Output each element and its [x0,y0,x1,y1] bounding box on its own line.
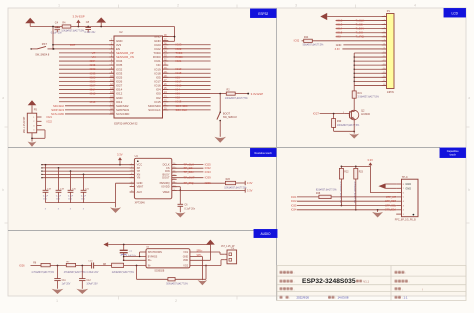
svg-text:TP-C: TP-C [402,175,408,179]
section label Capacitive touch [440,148,466,158]
resistor R23 [355,166,357,168]
svg-text:4: 4 [414,4,416,8]
svg-text:Q2: Q2 [361,109,365,113]
ctp signal wires [297,196,319,198]
feedback to VO2 [205,266,207,280]
svg-text:IO14: IO14 [90,88,96,92]
connector P5 power arrow [28,100,37,105]
svg-text:50K&#937;&#177;5%: 50K&#937;&#177;5% [166,284,188,286]
svg-text:12: 12 [173,178,175,180]
resistor R28 [319,195,331,198]
TP-C pin1 mark [413,214,415,216]
svg-text:3.9&#937;&#177;5%: 3.9&#937;&#177;5% [358,96,379,98]
svg-text:CTP_INT: CTP_INT [386,196,397,199]
svg-text:C4: C4 [55,21,59,25]
svg-text:C12: C12 [86,280,91,282]
wire top rail to U2 GND pins [174,27,176,42]
resistor R7 [66,263,75,266]
svg-text:VO2: VO2 [183,264,188,267]
svg-text:0.1uF: 0.1uF [43,196,49,198]
svg-text:4: 4 [33,130,34,132]
svg-text:touch: touch [450,153,457,157]
ground below C11 [52,289,64,294]
svg-text:IO12: IO12 [90,92,96,96]
svg-text:SDO-SD0: SDO-SD0 [176,104,188,108]
svg-text:IO21: IO21 [47,116,53,119]
resistor R30 [333,114,335,119]
svg-text:VO1: VO1 [183,251,188,254]
wires U4 left rows [42,164,134,166]
svg-text:SCS-CMD: SCS-CMD [51,112,64,116]
svg-text::: : [289,296,290,300]
wire U4 GND row to bus [116,182,135,184]
svg-text:BYPASS: BYPASS [148,255,158,258]
svg-text:IO26: IO26 [19,263,25,267]
ground below BOOT [214,137,226,143]
svg-text:P1: P1 [387,9,391,13]
power arrow 5V audio [206,240,215,245]
svg-text:VN: VN [92,55,96,59]
wire 3.3V to TP-C pin3 [370,192,396,194]
svg-text:IO2: IO2 [336,35,341,39]
svg-text:CTP_SDA: CTP_SDA [385,209,397,212]
U4 right stubs and numbers [172,164,177,166]
wire U4 IOVDD down [172,186,181,188]
title block outline [277,266,466,301]
svg-text:IO27: IO27 [90,83,96,87]
svg-text:1uF 20V: 1uF 20V [62,283,71,285]
wires P1 rows 10-18 to bus [354,52,386,54]
svg-text:IO32: IO32 [90,67,96,71]
svg-text:IO5: IO5 [176,75,181,79]
svg-text:T_IRQ: T_IRQ [356,35,365,39]
wire U4 DOUT [172,177,204,179]
wire U5 VO1 to P4 pin1 [190,251,220,253]
svg-text:SW_SMD4.8: SW_SMD4.8 [223,116,237,119]
svg-text:3.3V-ESP: 3.3V-ESP [73,15,85,19]
resistor R6 [41,263,50,266]
chip U4 XPT2046 body [134,158,171,199]
svg-text:XPT2046: XPT2046 [135,201,146,204]
svg-text:7: 7 [131,185,132,187]
svg-text:FPC_6P_0.5_P0_B: FPC_6P_0.5_P0_B [395,219,416,222]
switch SW7 RST [30,48,32,50]
svg-text:CTP_SCL: CTP_SCL [385,204,397,207]
backlight bus vertical [353,53,355,91]
ground below bus [115,203,117,208]
svg-text:RST: RST [70,43,76,47]
section divider vertical [276,8,278,301]
wire BOOT to ground [219,121,221,137]
top power rail wire [30,26,174,28]
resistor R31 [352,91,356,98]
power arrow VCC main [100,26,102,28]
svg-text:IO33: IO33 [205,170,212,174]
svg-text:b: b [2,188,4,192]
module U2 ESP32-WROOM-32 body [114,36,163,118]
svg-text:IO21: IO21 [291,195,297,199]
U2 right pin stubs and numbers [163,36,169,38]
svg-text:IO33: IO33 [90,71,96,75]
svg-text:VP: VP [92,51,96,55]
svg-text:YN: YN [137,176,141,180]
capacitor C10 series [91,263,93,269]
svg-text::: : [294,287,295,291]
svg-text:C8: C8 [86,20,90,24]
connector P1 pin stubs and numbers [382,16,387,18]
svg-text:R28: R28 [316,193,321,195]
title row3 page label [395,287,398,290]
svg-text:2: 2 [403,210,404,212]
svg-text:13: 13 [173,174,175,176]
svg-text:IO22: IO22 [47,121,53,124]
wire EN pullup vertical [52,27,54,49]
touch filter capacitors C18 C19 C20 C21 [45,164,47,166]
wire U5 shutdown stub [140,251,146,253]
wire C10 to R8 [94,265,112,267]
svg-text:IO25: IO25 [90,75,96,79]
frame column ticks top [118,5,120,9]
title row4 date label [280,296,283,299]
svg-text:IO18: IO18 [176,71,182,75]
svg-text:10K&#937;&#177;5%: 10K&#937;&#177;5% [224,187,246,189]
svg-text:14PIN: 14PIN [387,90,394,94]
wire P5 bottom to ground [31,133,33,142]
section divider horizontal audio [8,230,254,232]
svg-text:82&#937;&#177;5%: 82&#937;&#177;5% [316,190,337,192]
svg-text:0.36uF 20V: 0.36uF 20V [87,272,99,274]
U4 pin1 mark [137,160,139,162]
svg-text:SPK+: SPK+ [197,250,204,252]
amplifier U5 SC8002B body [146,249,190,268]
svg-text:GND: GND [405,186,411,190]
svg-text:Capacitive: Capacitive [447,149,459,153]
svg-text:ESP32-WROOM-32: ESP32-WROOM-32 [114,121,138,125]
ground below U5 right [198,280,208,285]
svg-text:R30: R30 [337,121,342,123]
capacitor ground bus [46,202,116,204]
svg-text:10K&#937;&#177;5%: 10K&#937;&#177;5% [337,125,359,127]
wire U5 VO2 to P4 pin2 [190,265,221,267]
net port 3.3V on VREF [244,188,246,192]
port arrow GND row1 P1 [320,13,327,20]
svg-text:2022/9/26: 2022/9/26 [297,296,310,300]
wire R8 to U5 [124,265,146,267]
svg-text:LCD: LCD [452,11,459,15]
section label AUDIO [254,230,277,238]
svg-text:3.3V-ESP: 3.3V-ESP [251,92,264,96]
svg-text:ESP32-3248S035: ESP32-3248S035 [302,278,356,285]
svg-text:0.1uF: 0.1uF [68,196,74,198]
svg-text::: : [294,280,295,284]
svg-text:GND: GND [405,182,411,186]
svg-text:7: 7 [403,188,404,190]
svg-text:SW_SMD4.8: SW_SMD4.8 [35,54,50,57]
net port 3.3V-ESP right [247,93,249,95]
wire U4 VREF [172,189,245,191]
svg-text:IO35: IO35 [90,63,96,67]
capacitor C8 [87,26,89,28]
svg-text:10K&#937;&#177;5%: 10K&#937;&#177;5% [225,97,249,100]
power rail 5V with left arrow port [103,242,108,247]
title row1 file name label [395,271,398,274]
connector P4 body [227,250,237,264]
svg-text:RXD0: RXD0 [176,55,184,59]
svg-text:IO17: IO17 [176,79,182,83]
svg-text:4.7K&#937;&#177;5%: 4.7K&#937;&#177;5% [31,272,54,274]
svg-text:1: 1 [56,299,58,303]
svg-text:0.1uF 20v: 0.1uF 20v [184,208,195,211]
svg-text:2: 2 [175,299,177,303]
svg-text:RST: RST [42,42,48,46]
svg-text:TP_DIN: TP_DIN [184,170,194,174]
svg-text:AUX: AUX [137,190,143,194]
wire U5 GND to ground [190,256,203,258]
svg-text:IO39: IO39 [205,176,212,180]
svg-text:1: 1 [403,214,404,216]
svg-text:IO21: IO21 [176,59,182,63]
title version [356,280,359,283]
svg-text:IO32: IO32 [294,39,300,43]
wires U2 left side rows [53,44,114,46]
capacitor C6 on VREF [179,190,181,204]
svg-text:2: 2 [33,121,34,123]
wires U4 right DCLK CS DIN [172,164,204,166]
svg-text:R22: R22 [344,172,349,174]
ground below C6 [175,212,185,217]
svg-text:IO35: IO35 [291,203,297,207]
svg-text:3.3V: 3.3V [367,158,373,162]
svg-text:TP_IRQ: TP_IRQ [184,181,195,185]
wire to U5 IN+ [124,259,146,261]
frame row ticks right [466,126,470,128]
svg-text:R26: R26 [226,179,231,181]
power symbol 3.3V-ESP [78,26,80,28]
wire to U5 BYPASS [124,256,146,258]
connector P5 pins [37,116,42,118]
capacitor C7 polarized [123,245,125,250]
wire R6 to R7 [50,265,66,267]
ground below P5 [28,142,37,147]
power 3.3V above U4 [119,164,121,166]
svg-text:IO27: IO27 [313,112,320,116]
svg-text:1: 1 [33,117,34,119]
U4 left stubs and numbers [130,164,135,166]
svg-text:IO2: IO2 [176,96,181,100]
title row2 product model label [280,280,283,283]
svg-text:SCK/CLK: SCK/CLK [148,108,160,112]
title row3 product number label [280,287,283,290]
svg-text:CTP_RST: CTP_RST [385,200,397,203]
svg-text:IN-: IN- [148,264,151,267]
svg-text:SPK-: SPK- [197,255,203,257]
frame row ticks left [5,126,9,128]
svg-text:MIC-1.25-4PMT: MIC-1.25-4PMT [24,116,26,133]
svg-text:R23: R23 [359,172,364,174]
switch BOOT [219,112,221,114]
svg-text:R24: R24 [304,37,309,39]
section label ESP32 [251,9,277,18]
audio input wire [31,265,42,267]
gnd bus rows 1-2 with port arrow [385,183,396,185]
svg-text:0.1uF 20v: 0.1uF 20v [85,31,97,34]
resistor R2 [226,92,235,95]
svg-text:3.3V: 3.3V [335,47,341,51]
svg-text:4.7K&#937;&#177;5%: 4.7K&#937;&#177;5% [353,182,355,204]
svg-text:a: a [2,96,4,100]
svg-text:IO34: IO34 [291,208,297,212]
wire IO0 to R2 [211,93,221,95]
svg-text:SCK-CLK: SCK-CLK [176,108,188,112]
section label LCD [444,9,466,18]
svg-text:14:03:08: 14:03:08 [338,296,349,300]
net port 3.3V on PENIRQ [244,181,246,185]
transistor Q2 AO3400 [349,110,359,120]
resistor R26 [225,181,235,184]
wire U5 VDD to 5V rail [190,259,211,261]
svg-text:IO26: IO26 [90,79,96,83]
wire IO27 to gate [320,113,345,115]
svg-text:VREF: VREF [163,190,170,194]
svg-text:3: 3 [403,205,404,207]
svg-text:GND: GND [183,255,189,258]
title block column line [390,266,392,301]
svg-text:50&#937;&#177;5%: 50&#937;&#177;5% [303,45,324,47]
svg-text:Resistive touch: Resistive touch [255,151,273,155]
svg-text::V1.1: :V1.1 [363,279,370,283]
svg-text:IO36: IO36 [205,181,212,185]
ground below C12 [76,289,88,294]
title row2 file number label [395,280,398,283]
wire R30 to source node [333,127,335,131]
connector TP-C body [402,179,419,217]
section label Resistive touch [251,149,277,157]
svg-text:IO22: IO22 [176,47,182,51]
svg-text:8: 8 [403,184,404,186]
svg-text:DOUT: DOUT [162,176,170,180]
svg-text:IO34: IO34 [90,59,96,63]
svg-text:VDD: VDD [183,259,188,262]
connector P5 body [27,113,36,133]
title row4 time label [328,296,331,299]
svg-text:b: b [468,188,470,192]
ground on SDA row [377,209,379,211]
svg-text:SC8002B: SC8002B [154,271,164,273]
svg-text:IN+: IN+ [148,259,152,262]
connector TP-C stubs and numbers [396,183,401,185]
svg-text:4: 4 [403,201,404,203]
feedback wire from IN- node [136,266,138,280]
svg-text:3: 3 [295,4,297,8]
wires U2 right side rows [163,44,211,46]
svg-text:IO15: IO15 [176,100,182,104]
svg-text:U2: U2 [119,30,123,34]
pullup top wire [341,165,370,167]
svg-text:3.3V: 3.3V [117,153,123,157]
capacitor C12 [81,266,83,279]
svg-text:6: 6 [403,192,404,194]
svg-text:IO22: IO22 [291,199,297,203]
title row1 product name label [280,271,283,274]
wire R2 node to BOOT switch [219,94,221,112]
svg-text:2: 2 [177,4,179,8]
resistor R8 [112,263,124,267]
resistor R24 [304,39,313,42]
svg-text:R31: R31 [358,93,363,95]
connector P1 yellow body [387,14,395,89]
svg-text:a: a [468,96,470,100]
svg-text:5: 5 [403,197,404,199]
svg-text:0.1uF: 0.1uF [56,196,62,198]
wire GND pin rows to vertical [163,36,175,38]
svg-text:SHUTDOWN: SHUTDOWN [148,251,162,254]
svg-text:1:1: 1:1 [404,296,408,300]
wires P1 rows 2-6 with net labels [336,20,387,22]
svg-text:IO0: IO0 [176,92,181,96]
section divider horizontal middle [8,147,440,149]
svg-text:IO13: IO13 [90,100,96,104]
svg-text:3.3V: 3.3V [247,181,253,185]
svg-text:IO23: IO23 [176,43,182,47]
svg-text:IO16: IO16 [176,83,182,87]
svg-text:IO19: IO19 [176,67,182,71]
svg-text::: : [294,271,295,275]
wire Q2 source down [353,122,355,131]
svg-text:3: 3 [33,125,34,127]
title row4 scale label [395,296,398,299]
svg-text:VBAT: VBAT [137,184,144,188]
svg-text:C11: C11 [62,280,67,282]
svg-text:TXD0: TXD0 [176,51,183,55]
wire P5 pin4 loop [42,129,46,131]
svg-text:1: 1 [58,4,60,8]
U2 left pin stubs and numbers [109,40,114,42]
ground below Q2 [349,134,359,139]
svg-text:10K&#937;&#177;5%: 10K&#937;&#177;5% [61,29,85,32]
title block row lines [277,275,466,277]
svg-text:22K&#937;&#177;5%: 22K&#937;&#177;5% [112,272,134,274]
svg-text:ESP32: ESP32 [258,12,268,16]
svg-text:SCS/CMD: SCS/CMD [116,112,129,116]
svg-text:4.7K&#937;&#177;5%: 4.7K&#937;&#177;5% [339,182,341,204]
svg-text:GND: GND [336,43,342,47]
frame column ticks bottom [118,296,120,300]
wire R7 to C10 [76,265,92,267]
resistor R4 [62,25,71,28]
svg-text:3.3V: 3.3V [247,188,253,192]
svg-text:IO4: IO4 [176,88,181,92]
power flag 3.3V left arrow [25,18,35,24]
svg-text:104pF 20V: 104pF 20V [86,283,98,285]
resistor R22 [340,166,342,168]
wire U4 PENIRQ to R26 [172,182,226,184]
wires U2 left side SD rows [65,105,114,107]
svg-text:IOVDD: IOVDD [161,184,169,188]
capacitor C11 [57,266,59,279]
svg-text:TP_OUT: TP_OUT [184,176,195,180]
svg-text:AUDIO: AUDIO [260,232,271,236]
svg-text:8: 8 [131,191,132,193]
svg-text:0.1uF: 0.1uF [81,196,87,198]
feedback resistor [168,278,175,281]
svg-text::: : [409,280,410,284]
svg-text:AO3400: AO3400 [361,113,371,116]
capacitor C4 [56,27,58,28]
